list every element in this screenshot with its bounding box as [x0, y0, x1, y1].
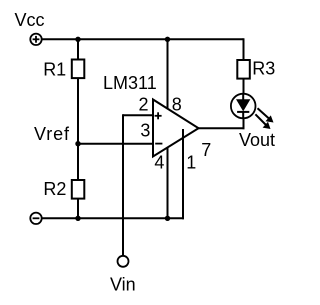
svg-text:4: 4 — [154, 152, 164, 172]
wire Vref node to pin 3 — [78, 143, 153, 145]
junction dot top rail / R1 — [75, 37, 80, 42]
svg-text:1: 1 — [186, 153, 196, 173]
wire pin 2 horizontal — [123, 114, 153, 116]
wire Vref node to R2 — [77, 144, 79, 180]
terminal - (ground) — [30, 213, 41, 224]
junction dot bottom rail / R2 — [75, 216, 80, 221]
wire output pin 7 — [199, 127, 245, 129]
wire Vcc to R1 — [77, 39, 79, 59]
LED light arrow 1 — [258, 108, 274, 122]
wire R2 to ground rail — [77, 199, 79, 219]
svg-text:Vref: Vref — [34, 124, 70, 144]
wire pin 4 to ground rail — [167, 147, 169, 218]
wire pin 1 to ground rail — [182, 129, 184, 219]
svg-text:LM311: LM311 — [103, 73, 157, 93]
svg-text:Vcc: Vcc — [15, 10, 45, 30]
node Vref junction dot — [75, 141, 80, 146]
wire Vin vertical — [122, 114, 124, 256]
wire top rail Vcc — [42, 38, 244, 40]
op-amp U1 LM311 triangle — [153, 100, 199, 157]
op-amp minus input marking — [155, 143, 162, 145]
svg-text:R3: R3 — [252, 59, 275, 79]
resistor R3 — [237, 60, 250, 79]
svg-text:2: 2 — [139, 95, 149, 115]
wire R1 to Vref node — [77, 78, 79, 144]
svg-text:Vin: Vin — [110, 275, 136, 295]
resistor R2 — [72, 180, 85, 199]
wire bottom rail — [42, 217, 184, 219]
terminal Vin — [118, 256, 129, 267]
LED D1 body — [231, 94, 256, 119]
LED light arrow 2 — [255, 114, 270, 129]
wire right column Vcc to output — [243, 38, 245, 129]
resistor R1 — [72, 60, 85, 79]
svg-text:7: 7 — [201, 140, 211, 160]
junction dot bottom rail / pin 4 — [165, 216, 170, 221]
svg-text:R1: R1 — [43, 59, 66, 79]
svg-text:Vout: Vout — [239, 130, 275, 150]
svg-text:R2: R2 — [43, 179, 66, 199]
op-amp plus input marking — [155, 112, 162, 119]
wire pin 8 to Vcc rail — [167, 39, 169, 109]
junction dot top rail / pin 8 — [165, 37, 170, 42]
terminal + (Vcc supply) — [30, 34, 41, 45]
svg-text:8: 8 — [172, 95, 182, 115]
svg-text:3: 3 — [140, 121, 150, 141]
